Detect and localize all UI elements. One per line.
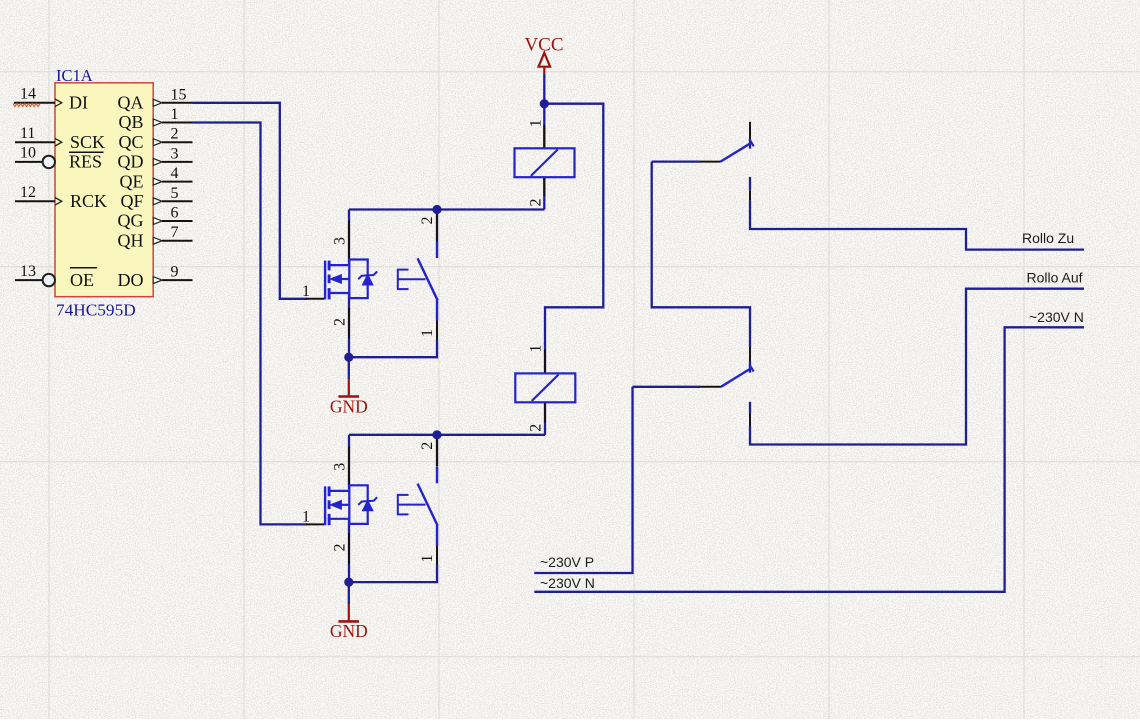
svg-text:13: 13 [20,263,36,280]
svg-text:6: 6 [171,205,179,222]
svg-text:~230V N: ~230V N [540,575,595,591]
svg-text:11: 11 [20,125,35,142]
svg-text:2: 2 [332,318,349,326]
svg-text:2: 2 [332,544,349,552]
svg-text:OE: OE [70,270,94,290]
svg-text:12: 12 [20,184,36,201]
svg-text:QD: QD [118,152,144,172]
svg-text:3: 3 [171,145,179,162]
svg-text:1: 1 [302,283,310,300]
svg-text:DO: DO [118,270,144,290]
svg-text:RCK: RCK [70,191,107,211]
svg-text:14: 14 [20,86,36,103]
svg-text:GND: GND [330,396,368,416]
svg-text:2: 2 [528,199,545,207]
svg-text:1: 1 [528,345,545,353]
svg-text:9: 9 [171,264,179,281]
svg-text:DI: DI [69,93,88,113]
svg-text:74HC595D: 74HC595D [56,301,136,320]
svg-text:Rollo Zu: Rollo Zu [1022,230,1074,246]
svg-text:QG: QG [118,211,144,231]
svg-text:QF: QF [120,191,143,211]
svg-text:2: 2 [528,424,545,432]
svg-text:10: 10 [20,145,36,162]
svg-text:Rollo Auf: Rollo Auf [1027,270,1083,286]
svg-text:1: 1 [171,106,179,123]
svg-text:3: 3 [332,237,349,245]
svg-text:QB: QB [118,112,143,132]
svg-text:4: 4 [171,165,179,182]
svg-text:~230V N: ~230V N [1029,309,1084,325]
svg-text:QE: QE [120,171,144,191]
svg-text:1: 1 [419,555,436,563]
svg-text:2: 2 [171,126,179,143]
svg-text:2: 2 [419,442,436,450]
svg-text:7: 7 [171,224,179,241]
svg-text:VCC: VCC [524,34,563,55]
svg-text:1: 1 [302,509,310,526]
svg-text:1: 1 [419,329,436,337]
svg-text:15: 15 [171,86,187,103]
svg-text:QH: QH [118,230,144,250]
svg-text:RES: RES [69,152,102,172]
svg-text:IC1A: IC1A [56,66,93,85]
svg-text:1: 1 [528,119,545,127]
svg-text:~230V P: ~230V P [540,554,594,570]
svg-text:QA: QA [118,93,144,113]
svg-text:2: 2 [419,217,436,225]
svg-text:5: 5 [171,185,179,202]
svg-text:QC: QC [118,132,143,152]
svg-text:GND: GND [330,621,368,641]
svg-text:SCK: SCK [70,132,105,152]
svg-text:3: 3 [332,463,349,471]
